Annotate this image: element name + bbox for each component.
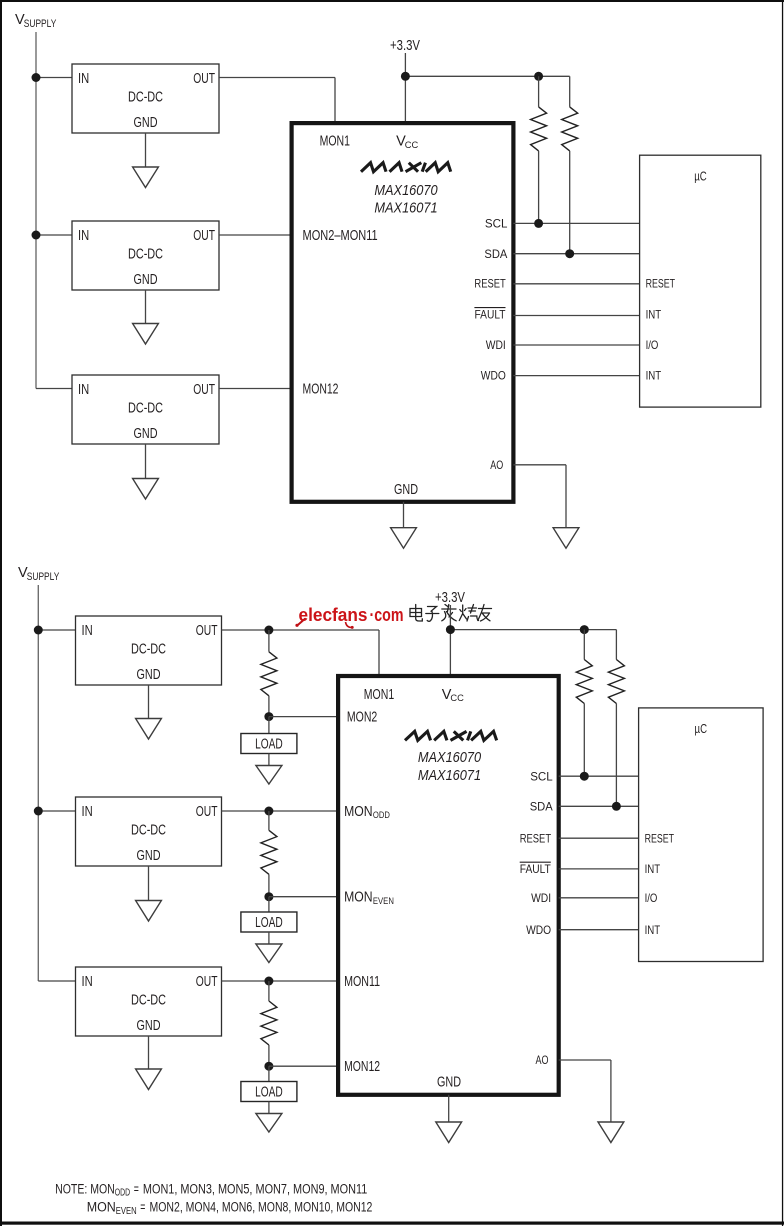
svg-text:CC: CC [450,693,464,704]
svg-text:RESET: RESET [474,277,506,291]
svg-text:CC: CC [405,140,419,151]
svg-text:OUT: OUT [193,228,215,244]
svg-text:MAX16071: MAX16071 [418,767,481,784]
svg-text:GND: GND [137,1018,161,1034]
svg-text:=: = [140,1199,145,1214]
svg-text:+3.3V: +3.3V [390,38,420,54]
svg-text:IN: IN [78,71,89,87]
svg-text:LOAD: LOAD [255,1085,283,1101]
svg-text:+3.3V: +3.3V [435,590,465,606]
svg-text:INT: INT [645,862,661,876]
svg-text:MON: MON [87,1199,116,1214]
svg-text:NOTE: MON: NOTE: MON [55,1181,115,1196]
svg-text:µC: µC [694,169,707,184]
svg-text:OUT: OUT [196,623,218,639]
svg-text:MON11: MON11 [344,974,380,990]
svg-text:ODD: ODD [115,1188,130,1199]
svg-text:EVEN: EVEN [116,1206,137,1217]
svg-text:MON2–MON11: MON2–MON11 [303,228,378,244]
svg-text:GND: GND [137,667,161,683]
svg-text:AO: AO [490,458,503,472]
svg-text:GND: GND [134,272,158,288]
svg-text:IN: IN [82,623,93,639]
svg-text:FAULT: FAULT [475,308,507,322]
svg-text:DC-DC: DC-DC [128,401,163,417]
svg-text:EVEN: EVEN [373,896,394,907]
svg-text:OUT: OUT [196,804,218,820]
svg-text:MAX16070: MAX16070 [374,182,438,199]
svg-text:MON2, MON4, MON6, MON8, MON10,: MON2, MON4, MON6, MON8, MON10, MON12 [150,1199,373,1214]
svg-text:SDA: SDA [530,800,553,814]
svg-text:MAX16070: MAX16070 [418,749,482,766]
svg-text:GND: GND [137,848,161,864]
svg-text:I/O: I/O [646,338,659,352]
svg-text:MON12: MON12 [303,382,339,398]
svg-text:GND: GND [134,115,158,131]
svg-text:MON: MON [344,890,373,906]
svg-text:MON1: MON1 [364,687,394,703]
svg-text:WDI: WDI [486,338,506,352]
svg-text:RESET: RESET [646,277,676,291]
svg-text:IN: IN [82,974,93,990]
svg-text:MAX16071: MAX16071 [374,200,437,217]
svg-text:SUPPLY: SUPPLY [27,571,60,583]
svg-text:IN: IN [82,804,93,820]
svg-text:ODD: ODD [373,810,390,821]
svg-text:OUT: OUT [193,71,215,87]
svg-text:RESET: RESET [520,831,552,845]
svg-text:GND: GND [394,482,418,498]
svg-text:DC-DC: DC-DC [131,823,166,839]
svg-text:DC-DC: DC-DC [131,993,166,1009]
svg-text:MON1, MON3, MON5, MON7, MON9,: MON1, MON3, MON5, MON7, MON9, MON11 [143,1181,367,1196]
svg-text:OUT: OUT [193,382,215,398]
svg-text:·com: ·com [370,605,404,625]
svg-text:IN: IN [78,228,89,244]
svg-text:MON: MON [344,804,373,820]
svg-text:elecfans: elecfans [299,605,368,625]
svg-text:DC-DC: DC-DC [128,90,163,106]
svg-text:INT: INT [646,369,662,383]
svg-text:GND: GND [134,426,158,442]
svg-text:FAULT: FAULT [520,862,552,876]
svg-text:WDO: WDO [481,369,506,383]
svg-text:IN: IN [78,382,89,398]
svg-text:WDI: WDI [531,891,551,905]
svg-text:AO: AO [536,1053,549,1067]
svg-text:I/O: I/O [645,891,658,905]
svg-text:MON1: MON1 [320,134,350,150]
svg-text:MON12: MON12 [344,1059,380,1075]
svg-text:SUPPLY: SUPPLY [24,18,57,30]
svg-text:INT: INT [646,308,662,322]
svg-text:MON2: MON2 [347,710,377,726]
svg-text:GND: GND [437,1075,461,1091]
svg-text:DC-DC: DC-DC [128,247,163,263]
svg-text:SCL: SCL [530,769,553,783]
svg-text:WDO: WDO [526,923,551,937]
svg-text:LOAD: LOAD [255,915,283,931]
svg-text:LOAD: LOAD [255,737,283,753]
svg-text:DC-DC: DC-DC [131,642,166,658]
svg-text:OUT: OUT [196,974,218,990]
svg-text:SCL: SCL [485,217,508,231]
svg-text:RESET: RESET [645,831,675,845]
svg-text:µC: µC [695,721,708,736]
svg-text:INT: INT [645,923,661,937]
svg-text:SDA: SDA [484,247,507,261]
svg-text:=: = [134,1181,139,1196]
